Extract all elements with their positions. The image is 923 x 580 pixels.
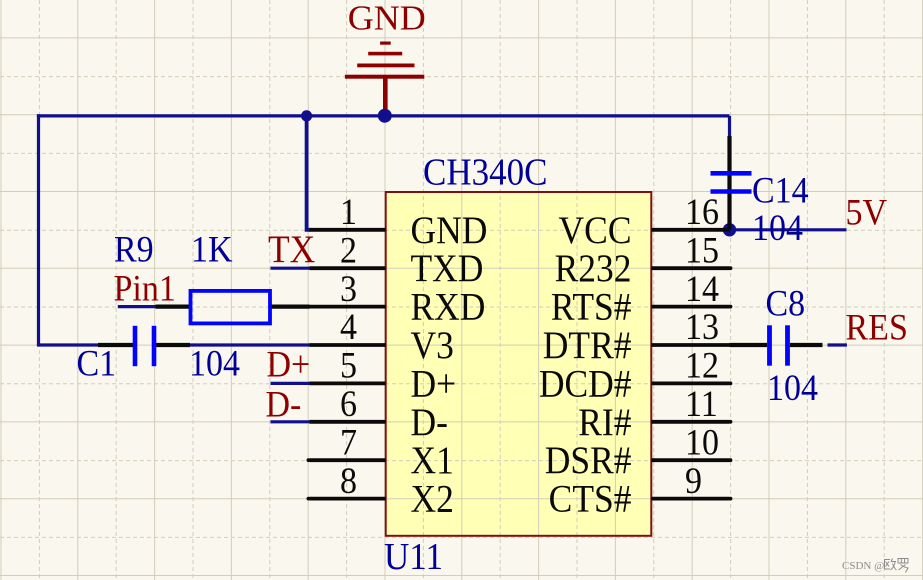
svg-text:15: 15 bbox=[685, 229, 719, 271]
pin number 11 bbox=[685, 383, 718, 425]
svg-text:X1: X1 bbox=[411, 440, 454, 483]
value 104 of C8 bbox=[767, 366, 818, 408]
wire: VCC junction to 5V bbox=[730, 228, 847, 231]
wire: left vertical bus bbox=[37, 114, 40, 345]
watermark CSDN bbox=[842, 559, 908, 573]
net label D- bbox=[266, 383, 302, 425]
svg-text:9: 9 bbox=[685, 459, 702, 501]
pin 13 lead bbox=[651, 343, 732, 347]
pin name DCD# bbox=[539, 363, 632, 406]
value 1K bbox=[191, 228, 233, 270]
wire: D+ net stub to pin 5 bbox=[271, 382, 311, 385]
svg-text:1: 1 bbox=[340, 191, 357, 233]
pin 4 lead bbox=[310, 343, 386, 347]
pin name TXD bbox=[411, 248, 484, 291]
svg-text:CTS#: CTS# bbox=[549, 478, 632, 521]
ground bbox=[345, 42, 424, 113]
pin 8 lead bbox=[307, 497, 386, 501]
pin 12 lead bbox=[651, 382, 732, 386]
pin name DSR# bbox=[545, 440, 632, 483]
junction at GND stem bbox=[378, 109, 392, 123]
svg-text:D+: D+ bbox=[411, 363, 457, 406]
svg-text:1K: 1K bbox=[191, 228, 233, 270]
capacitor C14 bbox=[711, 173, 752, 191]
svg-text:11: 11 bbox=[685, 383, 718, 425]
wire: C8 to RES stub bbox=[828, 343, 847, 346]
pin 1 lead bbox=[310, 228, 386, 232]
pin 10 lead bbox=[651, 458, 732, 462]
capacitor C1 bbox=[135, 326, 154, 366]
power label GND bbox=[348, 0, 426, 37]
svg-text:R232: R232 bbox=[555, 248, 632, 291]
svg-text:TX: TX bbox=[268, 229, 315, 272]
capacitor C8 leads bbox=[730, 343, 823, 347]
pin number 6 bbox=[340, 383, 357, 425]
wire: D- net stub to pin 6 bbox=[271, 420, 311, 423]
net label Pin1 bbox=[114, 267, 176, 309]
pin name D- bbox=[411, 401, 448, 444]
pin number 12 bbox=[685, 344, 719, 386]
pin name RI# bbox=[578, 401, 631, 444]
wire: Pin1 net stub bbox=[118, 305, 156, 308]
pin name V3 bbox=[411, 325, 454, 368]
pin name D+ bbox=[411, 363, 457, 406]
pin name X2 bbox=[411, 478, 454, 521]
svg-text:10: 10 bbox=[685, 421, 719, 463]
pin name R232 bbox=[555, 248, 632, 291]
pin 11 lead bbox=[651, 420, 732, 424]
pin name X1 bbox=[411, 440, 454, 483]
svg-text:CSDN @: CSDN @ bbox=[842, 560, 884, 572]
wire: drop to C14 bbox=[728, 116, 731, 137]
pin number 15 bbox=[685, 229, 719, 271]
svg-text:3: 3 bbox=[340, 267, 357, 309]
svg-text:Pin1: Pin1 bbox=[114, 267, 176, 309]
pin name RXD bbox=[411, 286, 486, 329]
pin 15 lead bbox=[651, 266, 732, 270]
pin number 10 bbox=[685, 421, 719, 463]
svg-text:D-: D- bbox=[411, 401, 448, 444]
svg-text:X2: X2 bbox=[411, 478, 454, 521]
svg-text:V3: V3 bbox=[411, 325, 454, 368]
pin number 14 bbox=[685, 267, 719, 309]
capacitor C14 lead bbox=[727, 136, 731, 230]
svg-text:7: 7 bbox=[340, 421, 357, 463]
net label 5V bbox=[846, 191, 888, 233]
pin number 5 bbox=[340, 344, 357, 386]
pin 5 lead bbox=[310, 381, 386, 385]
svg-text:DSR#: DSR# bbox=[545, 440, 632, 483]
svg-text:6: 6 bbox=[340, 383, 357, 425]
pin number 4 bbox=[340, 306, 357, 348]
svg-text:GND: GND bbox=[411, 209, 488, 252]
IC U11 body fill bbox=[386, 192, 652, 536]
svg-text:104: 104 bbox=[189, 342, 240, 384]
wire: TX net stub to pin 2 bbox=[271, 267, 311, 270]
svg-text:5: 5 bbox=[340, 344, 357, 386]
wire: C1 to pin 4 bbox=[190, 343, 310, 346]
svg-text:13: 13 bbox=[685, 306, 719, 348]
pin 9 lead bbox=[651, 497, 732, 501]
svg-text:14: 14 bbox=[685, 267, 719, 309]
junction at VCC / C14 bbox=[723, 223, 736, 236]
designator U11 bbox=[384, 534, 443, 577]
designator C14 bbox=[752, 169, 809, 211]
pin number 13 bbox=[685, 306, 719, 348]
net label TX bbox=[268, 229, 315, 272]
designator R9 bbox=[114, 228, 154, 270]
capacitor C8 bbox=[770, 325, 788, 365]
svg-text:C14: C14 bbox=[752, 169, 809, 211]
svg-text:104: 104 bbox=[767, 366, 818, 408]
pin 2 lead bbox=[310, 266, 386, 270]
wire: branch down to pin 1 bbox=[307, 116, 311, 230]
svg-text:DCD#: DCD# bbox=[539, 363, 632, 406]
svg-text:D+: D+ bbox=[267, 343, 311, 385]
value 104 of C14 bbox=[752, 206, 803, 248]
wire: top horizontal bus bbox=[37, 114, 730, 117]
svg-text:16: 16 bbox=[685, 191, 719, 233]
svg-text:RTS#: RTS# bbox=[551, 286, 632, 329]
svg-text:CH340C: CH340C bbox=[423, 150, 547, 193]
junction at pin-1 branch bbox=[301, 110, 312, 121]
pin number 9 bbox=[685, 459, 702, 501]
svg-text:2: 2 bbox=[340, 229, 357, 271]
pin number 8 bbox=[340, 459, 357, 501]
svg-text:12: 12 bbox=[685, 344, 719, 386]
resistor R9 bbox=[191, 291, 271, 324]
net label RES bbox=[846, 306, 908, 348]
svg-text:TXD: TXD bbox=[411, 248, 484, 291]
wire: bottom-left segment to C1 bbox=[37, 343, 98, 346]
designator C8 bbox=[766, 282, 806, 324]
IC U11 body border bbox=[386, 192, 652, 536]
pin 16 lead bbox=[651, 228, 729, 232]
capacitor C1 leads bbox=[98, 343, 190, 347]
svg-text:U11: U11 bbox=[384, 534, 443, 577]
pin 6 lead bbox=[310, 420, 386, 424]
pin number 2 bbox=[340, 229, 357, 271]
svg-text:C8: C8 bbox=[766, 282, 806, 324]
pin 14 lead bbox=[651, 305, 732, 309]
value 104 of C1 bbox=[189, 342, 240, 384]
svg-text:5V: 5V bbox=[846, 191, 888, 233]
pin name DTR# bbox=[543, 325, 632, 368]
svg-text:DTR#: DTR# bbox=[543, 325, 632, 368]
svg-text:C1: C1 bbox=[77, 342, 117, 384]
pin name CTS# bbox=[549, 478, 632, 521]
resistor R9 leads bbox=[156, 305, 310, 309]
pin number 1 bbox=[340, 191, 357, 233]
pin name RTS# bbox=[551, 286, 632, 329]
svg-text:RI#: RI# bbox=[578, 401, 631, 444]
svg-text:8: 8 bbox=[340, 459, 357, 501]
svg-text:VCC: VCC bbox=[559, 209, 632, 252]
pin 3 lead bbox=[310, 305, 386, 309]
pin name GND bbox=[411, 209, 488, 252]
pin number 3 bbox=[340, 267, 357, 309]
pin 7 lead bbox=[307, 458, 386, 462]
net label D+ bbox=[267, 343, 311, 385]
pin name VCC bbox=[559, 209, 632, 252]
svg-text:4: 4 bbox=[340, 306, 357, 348]
svg-text:R9: R9 bbox=[114, 228, 154, 270]
svg-text:RXD: RXD bbox=[411, 286, 486, 329]
designator C1 bbox=[77, 342, 117, 384]
pin number 16 bbox=[685, 191, 719, 233]
svg-text:RES: RES bbox=[846, 306, 908, 348]
svg-text:104: 104 bbox=[752, 206, 803, 248]
svg-text:D-: D- bbox=[266, 383, 302, 425]
svg-text:GND: GND bbox=[348, 0, 426, 37]
IC title CH340C bbox=[423, 150, 547, 193]
pin number 7 bbox=[340, 421, 357, 463]
